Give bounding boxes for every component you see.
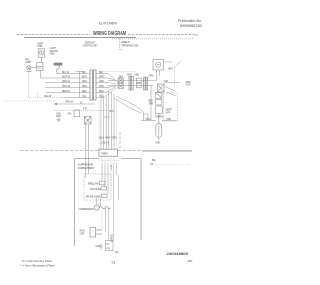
revision tag (187, 261, 193, 263)
svg-text:GRN: GRN (82, 81, 87, 83)
dotted wire above chain (100, 71, 135, 73)
wire converge diagonals (104, 74, 116, 98)
wire bus 1 (56, 72, 90, 74)
door switch S1 (37, 63, 44, 71)
legend non illustrated parts (20, 263, 55, 267)
page number (112, 261, 116, 265)
header model number (99, 22, 117, 26)
svg-text:GRN: GRN (99, 81, 104, 83)
wire bus 5 (45, 91, 90, 93)
bundle junction tick (104, 116, 110, 118)
svg-text:LAMP: LAMP (25, 61, 31, 64)
connector J1 pins (92, 74, 93, 98)
svg-text:BLK: BLK (82, 72, 87, 74)
svg-text:Publication No.: Publication No. (178, 19, 202, 23)
cord end label (107, 244, 111, 250)
svg-text:BLK-14: BLK-14 (62, 72, 70, 74)
compressor label (79, 209, 94, 211)
terminal board TB (99, 149, 118, 156)
bottom small 110 (115, 252, 119, 254)
wire diagonals right cluster (164, 86, 176, 96)
svg-text:RED-18: RED-18 (62, 91, 70, 93)
boundary solid right (142, 150, 192, 152)
power cord label vertical (109, 234, 111, 243)
svg-text:ORG: ORG (168, 68, 173, 70)
terminal B2 (84, 117, 91, 125)
trunk wire vertical (76, 72, 85, 98)
capacitor CP (86, 194, 107, 199)
svg-text:ORG: ORG (134, 74, 139, 76)
wire inner vertical right (114, 163, 119, 241)
cabinet dotted divider (5, 100, 54, 102)
freezer lamp label (25, 60, 31, 65)
wire lamp dotted down (28, 71, 30, 97)
wire bus 6 (29, 92, 90, 98)
chain label (119, 74, 133, 78)
plug connector C4 (144, 77, 148, 90)
svg-text:SW: SW (67, 113, 71, 115)
svg-text:COMPRESSOR: COMPRESSOR (79, 209, 94, 211)
chain small label (164, 80, 169, 83)
wire ground run (54, 101, 95, 105)
chain mid labels (134, 74, 154, 77)
svg-text:COMPARTMENT: COMPARTMENT (78, 167, 95, 170)
light switch label (50, 48, 59, 55)
bundle dotted wires (99, 100, 116, 149)
title WIRING DIAGRAM (93, 31, 126, 37)
svg-text:ASM: ASM (50, 52, 55, 55)
wire diagonal to right vertical (114, 96, 144, 113)
wire lamp to switch (31, 66, 36, 68)
svg-text:RED: RED (82, 91, 87, 93)
svg-text:BLK: BLK (110, 111, 115, 113)
wire chain pair (108, 81, 157, 86)
lamp L1 (26, 66, 31, 72)
plug connector C2 (129, 76, 133, 90)
dotted header rule wire (112, 38, 193, 40)
bundle vertical wires (101, 90, 114, 149)
svg-text:WHT-14: WHT-14 (62, 76, 71, 78)
wire labels right of J1 (99, 72, 105, 98)
header publication number (178, 19, 202, 28)
svg-text:ELHT1948FA: ELHT1948FA (99, 22, 117, 26)
ground G1 (56, 112, 61, 121)
connector J1 (90, 70, 96, 100)
publication part number (167, 251, 189, 256)
svg-text:* = Non-Illustrated Parts: * = Non-Illustrated Parts (20, 263, 55, 267)
svg-text:THERM: THERM (155, 117, 163, 119)
svg-text:TIMER: TIMER (101, 153, 108, 155)
svg-text:RUN CAP: RUN CAP (86, 196, 101, 199)
wire vertical x151 (150, 85, 152, 121)
heater terminal label (155, 143, 160, 145)
svg-text:110: 110 (115, 252, 119, 254)
wire stubs right of J1 (96, 74, 108, 98)
dashed top boundary wire (17, 34, 196, 36)
wire bus 3 (45, 81, 90, 83)
connector X1 (158, 84, 164, 92)
ground G2 (99, 244, 103, 249)
svg-text:WHT: WHT (82, 76, 88, 78)
thermostat label (155, 117, 163, 119)
defrost stack D2 (156, 99, 162, 105)
bundle junction labels (100, 138, 117, 145)
defrost thermostat D3 (155, 106, 162, 121)
svg-text:1 3 5 2 4: 1 3 5 2 4 (101, 143, 110, 145)
svg-text:5 W: 5 W (83, 109, 88, 111)
svg-text:4 .... ......... .. ..... ....: 4 .... ......... .. ..... .... (150, 164, 191, 166)
svg-text:HTR: HTR (166, 113, 171, 115)
svg-text:UG: UG (107, 248, 111, 250)
svg-text:CAB: CAB (56, 112, 61, 115)
TB pins below (102, 156, 114, 163)
node GRN right (186, 82, 191, 87)
svg-text:BLK: BLK (152, 160, 157, 162)
svg-text:DEFROST: DEFROST (85, 43, 96, 45)
wire bus 4 (45, 86, 90, 88)
defrost heater D4 (156, 121, 162, 140)
compressor motor CM (94, 205, 110, 210)
wire bus 2 (41, 71, 91, 79)
wire labels on defrost line (146, 119, 172, 121)
B1 label (67, 113, 71, 115)
compartment boundary dash-dot (20, 132, 142, 150)
svg-text:RUN: RUN (80, 230, 85, 232)
defrost dashed enclosure (164, 93, 178, 121)
svg-text:GRN-14: GRN-14 (62, 81, 71, 83)
svg-text:PNK: PNK (167, 119, 172, 121)
svg-text:ORG: ORG (99, 86, 104, 88)
svg-text:ORG: ORG (112, 138, 117, 140)
svg-text:POWER: POWER (109, 234, 111, 243)
freezer light label (37, 43, 43, 48)
defrost stack D1 (156, 93, 162, 99)
defrost stack side label (149, 101, 154, 106)
svg-text:91: 91 (112, 261, 116, 265)
lamp socket F1 (38, 49, 45, 57)
subtitle text block (82, 43, 98, 48)
svg-text:BLK: BLK (100, 138, 105, 140)
compartment label (78, 165, 95, 170)
wire B dotted (54, 109, 108, 111)
svg-text:ORG: ORG (149, 76, 154, 78)
svg-text:FRZ: FRZ (25, 60, 30, 62)
svg-text:GRN-14: GRN-14 (65, 101, 74, 103)
wire cap down (97, 198, 101, 206)
wires TB to relay (102, 163, 111, 194)
svg-text:GRN: GRN (186, 82, 191, 84)
wire id legend dashed edge (119, 38, 139, 50)
run capacitor RC (90, 227, 102, 237)
svg-text:WHT: WHT (106, 138, 112, 140)
TB side label (152, 160, 157, 162)
svg-text:PL: PL (107, 244, 110, 246)
svg-text:RELAY: RELAY (88, 183, 100, 186)
inline connector C1a (118, 78, 123, 83)
svg-text:CONTROL KEY: CONTROL KEY (82, 46, 98, 48)
svg-text:ASM: ASM (38, 45, 43, 48)
svg-text:WHT: WHT (99, 76, 105, 78)
svg-text:GRN: GRN (155, 143, 160, 145)
dotted wire under terminal board (101, 159, 119, 161)
svg-text:COMPRESSOR: COMPRESSOR (78, 165, 94, 167)
svg-text:240448800: 240448800 (167, 251, 189, 256)
wire fan down (157, 70, 160, 81)
node label right of wire B (110, 111, 115, 113)
inline connector C1b (118, 84, 123, 89)
svg-text:5995585782: 5995585782 (180, 24, 202, 28)
svg-text:WIRING DIAGRAM: WIRING DIAGRAM (93, 31, 126, 37)
svg-text:DEFR: DEFR (166, 110, 172, 112)
svg-text:BLK: BLK (99, 72, 104, 74)
wire defrost horizontal (141, 120, 177, 122)
svg-text:YEL-18: YEL-18 (44, 96, 52, 98)
wire comp down (102, 208, 109, 241)
wire L down to defrost line (144, 112, 149, 121)
svg-text:CAP: CAP (80, 232, 85, 235)
node label right cluster (168, 68, 173, 70)
svg-text:ORG-18: ORG-18 (62, 86, 71, 88)
thermostat TH1 (54, 63, 62, 73)
overload OL (90, 187, 107, 191)
svg-text:RED: RED (99, 91, 104, 93)
run cap label (80, 230, 85, 235)
TB label (101, 153, 108, 155)
svg-text:ORG: ORG (82, 86, 87, 88)
legend fast moving parts (22, 259, 52, 263)
svg-text:CLIP: CLIP (186, 85, 191, 87)
terminal B1 (74, 110, 80, 117)
svg-text:-0401: -0401 (187, 261, 193, 263)
svg-text:OPERATING KEY: OPERATING KEY (121, 44, 139, 47)
evap fan motor M1 (153, 60, 164, 70)
compressor compartment box (75, 159, 141, 246)
svg-text:CAP: CAP (164, 80, 169, 83)
svg-text:OVLD: OVLD (90, 189, 101, 191)
relay R1 (88, 181, 105, 185)
node BLK top right (196, 34, 199, 37)
wire fan right (164, 61, 181, 88)
footnote line under boundary (150, 164, 191, 166)
svg-text:# = Fast Moving Parts: # = Fast Moving Parts (22, 259, 52, 263)
inline connector C3b (136, 83, 141, 87)
junction blob label (111, 166, 113, 171)
inline connector C3a (136, 78, 141, 82)
wire B down (86, 124, 89, 178)
svg-text:t.d: t.d (196, 34, 199, 37)
svg-text:WIRE ID: WIRE ID (121, 42, 130, 44)
inner dashed enclosure (84, 174, 111, 200)
wire F1 down (40, 57, 42, 62)
power plug P1 (106, 241, 113, 251)
ground label GRN (95, 246, 100, 248)
solid header rule wire (24, 36, 136, 38)
